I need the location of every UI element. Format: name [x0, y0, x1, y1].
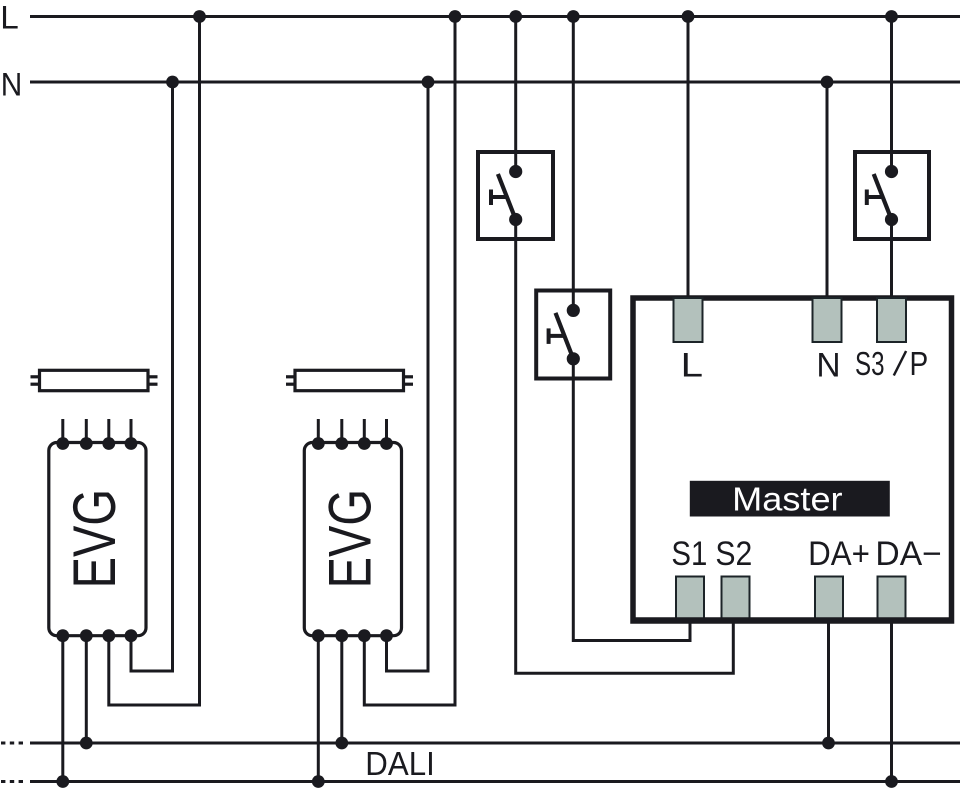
pin label S3/P: [855, 345, 928, 382]
terminal DA+ (master bottom): [815, 577, 843, 621]
wire N to master terminal N: [826, 82, 829, 300]
wire L to switch S1 top: [514, 17, 517, 172]
master unit U1 box: [633, 298, 952, 621]
terminal S3/P (master top): [877, 298, 906, 342]
wire DALI bus + (dashed lead-in): [1, 742, 960, 745]
svg-text:S2: S2: [715, 535, 752, 573]
wire switch S1 bottom to master terminal S2: [516, 220, 734, 674]
svg-text:S1: S1: [671, 535, 707, 573]
node DALI-/EVG1: [56, 775, 69, 788]
lamp LA2 (fluorescent tube): [286, 370, 413, 390]
wire EVG1 pin1 to DALI bus -: [61, 637, 64, 782]
wire L to switch S3 top: [890, 17, 893, 172]
svg-text:L: L: [0, 0, 19, 36]
node L/S2: [567, 10, 580, 23]
wire switch S3 bottom to master terminal S3/P: [890, 220, 893, 301]
EVG2 top pin nodes: [312, 437, 393, 450]
node N/EVG1: [166, 76, 179, 89]
lamp LA1 (fluorescent tube): [31, 370, 158, 390]
terminal S1 (master bottom): [676, 577, 704, 621]
ballast EVG2 box: [304, 443, 401, 636]
wire DALI bus - (dashed lead-in): [1, 780, 960, 783]
switch S2 (push-button): [536, 291, 610, 379]
wire L to EVG2 pin3: [364, 17, 455, 706]
wire N to EVG1 pin4: [131, 82, 173, 671]
svg-text:S3: S3: [855, 345, 885, 382]
node L/EVG2: [449, 10, 462, 23]
wire L to master terminal L: [687, 17, 690, 301]
EVG2 top pin leads: [318, 419, 386, 443]
wire EVG2 pin2 to DALI bus +: [340, 637, 343, 743]
svg-text:N: N: [816, 347, 840, 385]
terminal L (master top): [674, 298, 703, 342]
switch S1 (push-button): [478, 152, 553, 239]
node L/EVG1: [193, 10, 206, 23]
ballast EVG1 box: [49, 443, 146, 636]
EVG1 top pin leads: [63, 419, 131, 443]
node DALI-/DA-: [885, 775, 898, 788]
wire EVG2 pin1 to DALI bus -: [317, 637, 320, 782]
node N/EVG2: [422, 76, 435, 89]
svg-text:DA+: DA+: [808, 535, 870, 573]
node DALI+/EVG1: [80, 737, 93, 750]
terminal N (master top): [813, 298, 842, 342]
wire switch S2 bottom to master terminal S1: [573, 359, 690, 641]
wire N bus: [30, 81, 960, 84]
wire L bus: [30, 15, 960, 18]
label Master (black tag): [690, 481, 890, 518]
EVG2 bottom pin nodes: [312, 629, 393, 642]
svg-text:P: P: [910, 345, 929, 382]
wire L to switch S2 top: [572, 17, 575, 311]
wire master terminal DA- to DALI bus -: [890, 618, 893, 782]
wire master terminal DA+ to DALI bus +: [827, 618, 830, 743]
wire N to EVG2 pin4: [387, 82, 429, 671]
EVG1 top pin nodes: [56, 437, 137, 450]
wire L to EVG1 pin3: [109, 17, 200, 706]
node L/S3: [885, 10, 898, 23]
node L/S1: [509, 10, 522, 23]
wire EVG1 pin2 to DALI bus +: [85, 637, 88, 743]
node DALI+/EVG2: [335, 737, 348, 750]
terminal DA- (master bottom): [878, 577, 906, 621]
node DALI+/DA+: [822, 737, 835, 750]
switch S3 (push-button): [855, 152, 929, 239]
svg-text:L: L: [681, 347, 703, 385]
node N/master: [821, 76, 834, 89]
svg-text:DA−: DA−: [875, 535, 941, 573]
svg-text:DALI: DALI: [365, 745, 435, 782]
svg-text:Master: Master: [732, 481, 842, 518]
svg-text:EVG: EVG: [61, 489, 128, 588]
EVG1 bottom pin nodes: [56, 629, 137, 642]
svg-text:EVG: EVG: [317, 489, 384, 588]
terminal S2 (master bottom): [722, 577, 750, 621]
node DALI-/EVG2: [312, 775, 325, 788]
svg-text:N: N: [1, 67, 23, 103]
node L/master: [682, 10, 695, 23]
master bottom border over terminals: [633, 617, 951, 623]
